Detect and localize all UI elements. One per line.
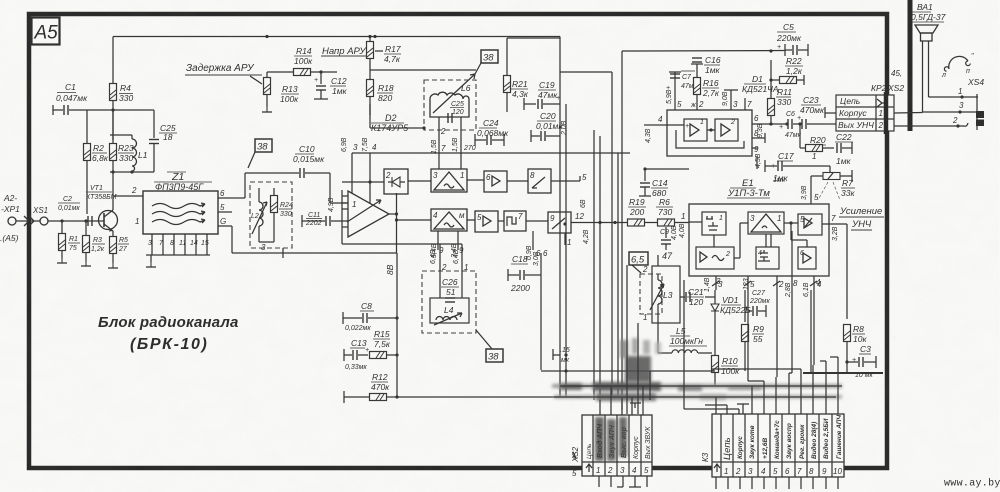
text Napr ARU: [321, 46, 368, 57]
resistor R7 trimmer: [822, 166, 855, 198]
capacitor C3: [845, 344, 876, 379]
inductor L5: [658, 326, 712, 353]
E1 pin 5 top stub: [801, 176, 822, 204]
wire R2 branch: [86, 110, 88, 144]
wire top right corner down: [507, 37, 560, 169]
resistor R20: [800, 135, 834, 161]
resistor R24: [271, 188, 293, 242]
wire E1 right down: [792, 231, 811, 373]
IC E1 label: [727, 177, 786, 199]
wire R10 row: [541, 370, 715, 372]
wire branch to R20: [798, 122, 801, 148]
jack XS4 contact 1: [929, 87, 979, 99]
wire block4 to block5: [467, 219, 475, 221]
inductor L3 dashed: [640, 274, 673, 314]
E1 cell 6: [798, 247, 816, 269]
jack XS4 contact 3: [923, 101, 978, 114]
amp top pin 7: [745, 98, 752, 110]
block 6 amp: [484, 171, 507, 192]
E1 pin 7 out: [822, 214, 847, 241]
wire feedback loop: [676, 130, 744, 148]
headphones icon: [941, 53, 974, 79]
voltage 0,9B bottom: [526, 231, 541, 260]
wire extra verticals: [627, 265, 650, 414]
IC D2 label: [371, 113, 409, 133]
amp top pin 2 R16: [690, 64, 704, 110]
callout box 38 left: [248, 139, 272, 168]
wire block6 to block8: [507, 180, 528, 182]
connector table XS2: [582, 415, 652, 476]
E1 cell 1: [702, 212, 726, 235]
E1 bottom pins: [712, 276, 822, 290]
voltage 3,4B bottom: [451, 231, 464, 258]
text Zaderzhka ARU: [185, 63, 262, 84]
resistor R21: [504, 38, 529, 112]
capacitor C19: [524, 80, 560, 110]
wire down from VD1: [714, 322, 716, 353]
amp right pin 6: [752, 114, 771, 138]
block 9 switch: [548, 212, 571, 233]
capacitor C26: [441, 277, 459, 302]
wire main audio path: [571, 212, 628, 224]
jack XS4 contact 2: [952, 116, 960, 128]
block 7 shaper: [504, 211, 526, 231]
wire D2 bus top: [352, 152, 630, 154]
wire horizontal 169: [645, 168, 689, 170]
resistor R13: [264, 72, 300, 107]
opamp input stubs: [342, 196, 348, 227]
sheet frame: [29, 14, 887, 468]
node A2-XP1 input label: [0, 193, 20, 243]
dashed box L4: [422, 271, 476, 333]
resistor R5: [110, 231, 130, 263]
wire korpus out: [825, 107, 923, 118]
resistor R23: [110, 143, 135, 172]
resistor R18: [367, 80, 394, 116]
pin 1 stub block9: [565, 233, 571, 247]
block 4 limiter2: [431, 209, 467, 231]
dashed box L6: [424, 80, 476, 130]
wires into table XS2: [600, 386, 643, 415]
wire: [16, 220, 40, 222]
capacitor C14: [639, 167, 668, 198]
resistor R3: [83, 221, 106, 261]
bus band gray smear lower: [554, 393, 842, 401]
wire block7 to block9: [526, 220, 548, 222]
diode VD1: [705, 290, 751, 322]
transistor VT1: [86, 185, 118, 232]
dashed box L2: [250, 182, 292, 248]
wire AGC top: [113, 36, 560, 38]
wire bus row1: [560, 385, 842, 387]
callout box 38 bottom: [486, 349, 503, 363]
block 8 switch: [528, 169, 551, 193]
capacitor C15: [553, 347, 570, 364]
capacitor C18: [508, 254, 541, 293]
capacitor C2: [58, 196, 92, 226]
connector table KR2: [836, 95, 894, 131]
capacitor C25b: [448, 101, 464, 123]
resistor R12: [344, 372, 582, 403]
wire input main: [48, 220, 98, 222]
wire pin6 node down: [769, 122, 788, 125]
resistor R6: [656, 197, 689, 226]
resistor R8: [844, 224, 868, 373]
wire block2 to block3: [408, 180, 431, 182]
capacitor C10: [245, 144, 348, 203]
amp bottom stub: [755, 153, 762, 169]
capacitor C25: [113, 110, 177, 172]
pin 3 stub into opamp: [352, 143, 358, 193]
amp right pin 9: [752, 145, 759, 154]
capacitor C20a: [531, 111, 563, 142]
wire VT1 collector to Z1 pin 2: [113, 186, 143, 210]
text Blok radiokanala: [98, 314, 239, 353]
Z1 right pins 6 5 G: [218, 189, 245, 226]
wire top tie: [110, 134, 132, 136]
resistor R22: [769, 56, 804, 99]
bus band gray smear upper: [552, 382, 842, 391]
Z1 bottom pins 3 7 8 11 14 15: [146, 234, 210, 255]
node junction: [60, 219, 63, 222]
wire block8 right: [551, 173, 587, 182]
E1 cell 3 triangle: [748, 212, 784, 234]
junction: [111, 108, 114, 111]
resistor R4: [110, 37, 134, 141]
wire 8V vertical: [385, 253, 399, 397]
resistor R19: [628, 197, 659, 226]
junction: [368, 35, 371, 38]
filter Z1: [143, 171, 218, 234]
connector XS2 label: [571, 446, 580, 478]
inductor L2: [251, 188, 267, 242]
capacitor C21: [680, 287, 704, 307]
connector XP1 circle: [8, 217, 16, 225]
smudge table1 dark cells: [595, 417, 627, 461]
amplifier block DA rect: [667, 110, 752, 156]
opamp D2 triangle: [347, 191, 389, 237]
A5 designator box: [32, 18, 60, 45]
wire AGC mid: [267, 71, 294, 73]
wire R4 to tie: [112, 110, 114, 144]
connector XS1 circle: [40, 217, 48, 225]
callout box 6,5: [629, 252, 648, 273]
capacitor C6 47mk: [779, 111, 802, 139]
capacitor C11: [302, 212, 342, 227]
capacitor C8b: [343, 301, 397, 332]
wire amp internal: [707, 128, 715, 131]
amp top pin 5: [666, 72, 682, 110]
wire C18 vertical: [533, 249, 548, 370]
sheet edge line right: [908, 0, 913, 131]
capacitor C23: [797, 95, 836, 129]
L4 pins: [430, 244, 468, 298]
capacitor C5: [776, 22, 808, 56]
dash pointer R7: [818, 182, 840, 200]
table XS2 bottom pins: [599, 476, 647, 487]
speaker BA1: [910, 2, 946, 113]
callout box 38 top: [475, 50, 498, 74]
wire D2 bottom bus: [342, 243, 462, 245]
amp top pin 3: [722, 90, 738, 110]
capacitor C13: [344, 338, 369, 371]
text Usilenie UNCH: [839, 206, 884, 230]
ground Z1: [146, 255, 156, 267]
resistor R16: [694, 78, 720, 99]
capacitor C27: [744, 290, 770, 317]
capacitor C22: [835, 132, 853, 166]
wire bottom tie: [110, 170, 154, 196]
ground R13: [262, 107, 272, 112]
wire long vertical buses: [560, 72, 618, 400]
E1 cell 4: [756, 247, 779, 269]
smudge VD2 dark blob: [620, 338, 661, 382]
wire amp input pin 4: [644, 115, 684, 125]
block 3 limiter: [431, 169, 467, 192]
ground: [57, 258, 67, 263]
inductor L6: [430, 74, 475, 117]
pin stub 2/7 block3 top: [431, 117, 446, 169]
capacitor C12: [314, 70, 348, 99]
block 5 amp: [475, 211, 498, 232]
junction top wire: [265, 35, 268, 38]
wire L2 box bottom: [232, 226, 397, 258]
wire block5 to block7: [498, 220, 504, 222]
resistor R17: [367, 37, 402, 81]
voltage 5,4B bottom: [431, 231, 444, 258]
capacitor C24: [475, 118, 509, 146]
wires into table K3 nested: [684, 280, 838, 414]
block 2 detector: [384, 169, 408, 194]
jack XS4 body: [976, 94, 984, 130]
wire audio module outline: [622, 49, 785, 410]
E1 cell 5: [798, 214, 822, 235]
wire vykh UNCH out: [894, 123, 968, 126]
resistor R15: [370, 329, 398, 359]
wire opamp out to block2: [389, 193, 398, 253]
wire L3 bottom to L5: [657, 314, 659, 353]
inductor L1: [132, 135, 148, 172]
diode D1 label: [742, 74, 779, 94]
resistor R2: [84, 143, 109, 214]
wire bottom right bus: [803, 372, 883, 374]
connector chevrons: [24, 216, 34, 226]
amp right pin 8: [752, 129, 765, 143]
resistor R14: [294, 46, 338, 76]
capacitor C9: [660, 225, 678, 250]
pin stub block3 top right: [452, 117, 476, 169]
connector table K3: [712, 414, 844, 477]
junction: [84, 219, 87, 222]
frame edge over table: [884, 92, 889, 134]
amp cell 1: [684, 119, 707, 141]
connector K3 label: [701, 452, 710, 462]
E1 internal wires: [689, 221, 807, 258]
resistor R1: [59, 221, 81, 258]
wire R18 to L6 box: [370, 104, 426, 130]
connector KR2 XS2 labels: [871, 69, 904, 93]
capacitor C7: [666, 71, 698, 92]
capacitor C1: [53, 82, 113, 115]
resistor R10: [712, 353, 741, 385]
wire opamp input bus: [342, 180, 384, 244]
wire block3 to block6: [467, 179, 484, 181]
capacitor C17: [765, 151, 830, 183]
wire R17 to right: [370, 69, 476, 71]
amp cell 2: [715, 119, 738, 141]
coil L4 box: [430, 298, 469, 325]
wire bus row2: [554, 396, 836, 398]
pin 4 stub into opamp: [370, 143, 377, 203]
resistor R9: [742, 290, 765, 371]
table K3 bottom pins: [716, 477, 838, 489]
ground: [81, 261, 91, 266]
resistor R11: [768, 87, 793, 124]
wire L4 to callout: [476, 330, 492, 349]
ground: [108, 263, 118, 268]
wire opamp to block4: [395, 218, 431, 221]
capacitor C16: [691, 55, 721, 75]
coil L3 outline rect: [642, 255, 680, 323]
E1 cell 2: [696, 247, 734, 269]
IC E1 outline: [689, 204, 829, 276]
